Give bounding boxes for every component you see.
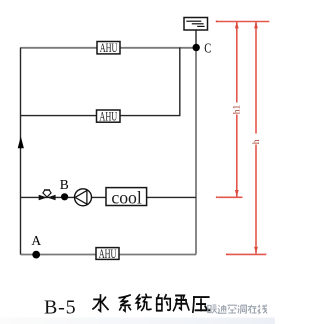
svg-text:AHU: AHU: [99, 247, 117, 261]
svg-text:h: h: [252, 139, 262, 144]
svg-text:cool: cool: [111, 187, 142, 207]
svg-text:AHU: AHU: [99, 109, 117, 123]
svg-text:C: C: [204, 40, 211, 55]
svg-text:A: A: [31, 233, 41, 248]
svg-text:B: B: [60, 177, 69, 192]
svg-text:B-5: B-5: [44, 297, 76, 319]
svg-text:h1: h1: [232, 104, 242, 114]
svg-text:AHU: AHU: [100, 41, 118, 55]
